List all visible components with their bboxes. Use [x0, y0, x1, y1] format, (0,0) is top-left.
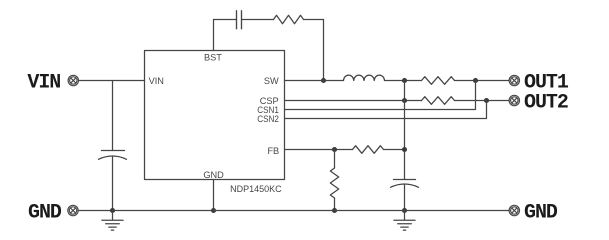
capacitor COUT (polarized) [391, 180, 419, 188]
junction GND pin rail [211, 208, 216, 213]
svg-text:BST: BST [204, 52, 222, 62]
terminal OUT2 [509, 95, 519, 105]
wire FB node down to RFB1 [334, 150, 336, 169]
resistor RS1 [422, 77, 455, 85]
junction RFB1 gnd [332, 208, 337, 213]
terminal GND right [509, 205, 519, 215]
wire VIN terminal to IC pin VIN [79, 80, 145, 82]
wire COUT to gnd rail [404, 184, 406, 210]
junction COUT gnd [402, 208, 407, 213]
junction SW-BST [321, 78, 326, 83]
svg-text:CSN2: CSN2 [257, 114, 279, 124]
resistor RFB2 horizontal [353, 146, 384, 154]
svg-text:NDP1450KC: NDP1450KC [230, 184, 282, 194]
wire BST top horizontal [214, 19, 237, 21]
svg-text:VIN: VIN [149, 76, 164, 86]
resistor RS2 [422, 97, 455, 105]
svg-text:SW: SW [264, 76, 279, 86]
wire resistor to SW riser [304, 20, 324, 81]
svg-text:GND: GND [203, 170, 224, 180]
wire RFB1 to gnd rail [334, 198, 336, 211]
terminal OUT1 [509, 75, 519, 85]
wire SW pin to inductor [285, 80, 344, 82]
svg-text:GND: GND [28, 201, 62, 224]
ground symbol right [394, 211, 415, 231]
capacitor CBST [237, 11, 242, 29]
svg-text:VIN: VIN [27, 71, 60, 94]
resistor RBST [274, 15, 304, 23]
wire CSP row [285, 100, 422, 102]
svg-text:OUT2: OUT2 [524, 92, 568, 115]
terminal VIN [68, 75, 78, 85]
junction FB output node [402, 147, 407, 152]
wire FB pin to resistors [285, 149, 353, 151]
wire CSN1 sense line [285, 81, 476, 110]
resistor RFB1 vertical [330, 168, 338, 198]
svg-text:GND: GND [524, 201, 558, 224]
svg-text:FB: FB [267, 146, 279, 156]
junction OUT1 sense node [473, 78, 478, 83]
wire output riser down to cap [404, 81, 406, 180]
IC U1 NDP1450KC body [145, 51, 285, 180]
wire GND rail [78, 210, 509, 212]
ground symbol left [102, 211, 123, 231]
junction output node SW row [402, 78, 407, 83]
wire BST pin up [213, 20, 215, 51]
wire input cap branch down [112, 81, 114, 151]
inductor L1 [344, 75, 385, 80]
capacitor CIN (polarized) [99, 151, 127, 160]
wire input cap to gnd rail [112, 156, 114, 210]
wire cap to resistor [242, 19, 274, 21]
wire RS1 to OUT1 terminal [455, 80, 510, 82]
wire CSN2 sense line [285, 101, 487, 119]
junction FB node [332, 147, 337, 152]
wire RS2 to OUT2 terminal [455, 100, 510, 102]
wire RFB2 to output riser [384, 149, 405, 151]
junction CSP output node [402, 98, 407, 103]
junction OUT2 sense node [484, 98, 489, 103]
wire GND pin down to rail [213, 180, 215, 211]
wire inductor to sense resistor 1 [385, 80, 422, 82]
junction input cap gnd [110, 208, 115, 213]
terminal GND left [68, 205, 78, 215]
